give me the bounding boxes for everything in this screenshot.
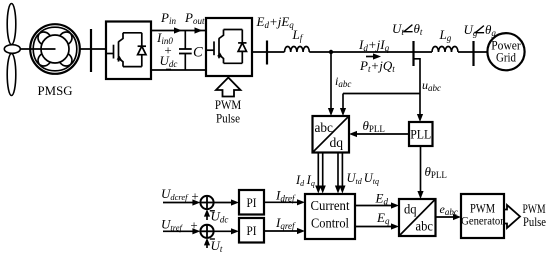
svg-text:Pulse: Pulse	[216, 111, 240, 126]
svg-text:abc: abc	[416, 220, 433, 235]
svg-text:abc: abc	[315, 121, 333, 136]
svg-text:Current: Current	[311, 198, 350, 213]
diode D1	[138, 33, 146, 67]
arrow theta into abc-dq	[349, 131, 357, 137]
wire u_abc down to PLL	[419, 94, 421, 115]
three-phase bar grid terminal	[472, 41, 474, 66]
svg-text:IdIq: IdIq	[295, 173, 315, 188]
wind turbine hub	[4, 45, 20, 54]
generator PMSG petal left	[33, 32, 50, 66]
bus wires Utd Utq from abc-dq to current control	[337, 153, 339, 187]
svg-text:eabc: eabc	[440, 202, 458, 217]
wire u_abc stub from bar	[414, 59, 421, 94]
wire U_dc feedback up	[206, 215, 208, 220]
svg-text:Ut: Ut	[392, 21, 404, 37]
arrow P_in	[174, 27, 182, 33]
PWM generator block	[461, 194, 504, 238]
svg-text:Pt+jQt: Pt+jQt	[359, 58, 395, 74]
wire E_d to dq-abc	[355, 205, 391, 207]
svg-text:Id+jIq: Id+jIq	[358, 37, 390, 53]
svg-text:Control: Control	[311, 216, 349, 231]
generator PMSG petal top	[38, 27, 72, 44]
arrow u_abc into abc-dq	[340, 108, 346, 116]
label minus polarity	[166, 69, 171, 71]
svg-text:PI: PI	[247, 223, 257, 238]
converter 2 inverter box	[206, 18, 252, 76]
arrow into sum1	[192, 199, 200, 205]
power grid circle	[487, 33, 524, 70]
wire PI1 to current control	[264, 201, 297, 203]
capacitor C1 leads	[184, 31, 186, 50]
wire u_abc down into abc-dq	[342, 94, 344, 109]
svg-text:Ug: Ug	[464, 22, 478, 38]
wire U_t feedback up	[206, 244, 208, 249]
IGBT Q1	[106, 33, 142, 67]
PLL block U2	[409, 122, 433, 146]
PI controller 1	[239, 190, 264, 215]
three-phase bar converter output	[266, 41, 268, 65]
inductor Lf	[285, 46, 310, 52]
svg-text:Lf: Lf	[292, 27, 304, 43]
wire PLL down to dq-abc	[420, 146, 422, 192]
converter 1 rectifier box	[106, 22, 151, 80]
arrow i_abc into abc-dq	[328, 108, 334, 116]
three-phase bar Ut terminal	[412, 41, 414, 66]
svg-text:Idref: Idref	[275, 188, 296, 204]
bus wires Id Iq from abc-dq to current control	[317, 153, 319, 187]
wire converter 2 to Lf	[252, 51, 285, 53]
wire i_abc down	[330, 52, 332, 109]
svg-text:Grid: Grid	[496, 50, 517, 64]
generator PMSG petal right	[60, 32, 77, 66]
wire u_abc horizontal to abc-dq	[343, 93, 420, 95]
svg-text:dq: dq	[330, 136, 344, 151]
svg-text:Utref: Utref	[161, 216, 184, 232]
wire sum2 to PI2	[214, 230, 232, 232]
wire Lg to grid	[458, 51, 487, 53]
svg-text:PMSG: PMSG	[38, 83, 73, 98]
svg-text:θPLL: θPLL	[425, 164, 447, 180]
wire Lf to Ut bar	[309, 51, 432, 53]
generator PMSG outer circle	[30, 24, 80, 74]
wire E_q to dq-abc	[355, 226, 391, 228]
wire shaft hub to PMSG	[20, 48, 55, 50]
svg-text:C: C	[193, 45, 203, 61]
summing junction 1	[200, 196, 213, 209]
capacitor C1 plates	[179, 48, 192, 50]
arrow into sum2	[192, 228, 200, 234]
arrow power flow direction	[366, 56, 374, 58]
svg-text:Udc: Udc	[211, 209, 229, 225]
svg-text:Udcref: Udcref	[161, 186, 189, 202]
summing junction 2	[200, 225, 213, 238]
svg-text:Pulse: Pulse	[523, 214, 546, 229]
wind turbine blade bottom	[7, 54, 16, 96]
svg-text:PLL: PLL	[410, 127, 431, 142]
wire e_abc to PWM generator	[436, 216, 454, 218]
block arrow PWM pulse output	[504, 205, 520, 228]
svg-text:Ut: Ut	[211, 238, 223, 254]
wire PLL to abc-dq theta	[357, 133, 410, 135]
wind turbine blade top	[7, 4, 16, 45]
three-phase bar machine side	[90, 29, 92, 72]
PI controller 2	[239, 218, 264, 243]
wire PMSG to converter 1	[80, 48, 106, 50]
svg-text:Generator: Generator	[461, 216, 504, 228]
svg-text:θPLL: θPLL	[363, 118, 385, 134]
diode D2	[238, 30, 246, 64]
svg-text:Ed+jEq: Ed+jEq	[256, 14, 295, 30]
svg-text:Lg: Lg	[439, 27, 452, 43]
wire input to sum1	[163, 202, 193, 204]
label minus sum1	[210, 210, 215, 212]
block arrow PWM pulse into converter 2	[216, 78, 241, 97]
inductor Lg	[432, 47, 458, 52]
svg-text:iabc: iabc	[335, 74, 351, 89]
current control block	[305, 194, 355, 239]
svg-text:θt: θt	[414, 21, 423, 37]
svg-text:Pout: Pout	[184, 10, 205, 26]
IGBT Q2	[207, 30, 243, 64]
arrow theta into dq-abc	[417, 191, 423, 199]
svg-text:Eq: Eq	[376, 210, 390, 226]
transform block abc-dq	[313, 116, 350, 153]
arrow P_out	[195, 27, 203, 33]
svg-text:PI: PI	[247, 195, 257, 210]
svg-text:PWM: PWM	[470, 202, 495, 216]
generator PMSG inner circle	[41, 35, 69, 63]
node junction i_abc	[329, 50, 333, 54]
svg-text:dq: dq	[404, 203, 417, 218]
wire input to sum2	[163, 230, 193, 232]
svg-text:Pin: Pin	[160, 10, 176, 26]
generator PMSG petal bottom	[38, 54, 72, 71]
arrow into PLL	[417, 114, 423, 122]
svg-text:Iqref: Iqref	[275, 215, 296, 231]
label minus sum2	[210, 238, 215, 240]
wire DC link bottom rail	[151, 69, 206, 71]
svg-text:UtdUtq: UtdUtq	[347, 171, 380, 186]
transform block dq-abc	[399, 199, 436, 236]
wire PI2 to current control	[264, 230, 297, 232]
wire sum1 to PI1	[214, 202, 232, 204]
wire DC link top rail	[151, 30, 206, 32]
svg-text:uabc: uabc	[422, 78, 441, 93]
svg-text:Udc: Udc	[160, 53, 178, 69]
svg-text:Ed: Ed	[375, 191, 389, 207]
